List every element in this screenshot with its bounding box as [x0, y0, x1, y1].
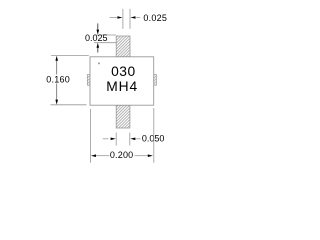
dim 0.160 left: dimension line — [56, 60, 58, 75]
tab right — [154, 75, 157, 86]
pad P1 (top, hatched) — [116, 36, 130, 57]
dim 0.025 top-left: extension line upper — [94, 34, 116, 36]
tab left — [87, 75, 90, 86]
dim 0.025 top-right: right leader arrow — [136, 17, 140, 19]
dim 0.025 top-left: arrow up — [97, 47, 99, 53]
svg-text:0.050: 0.050 — [142, 134, 165, 144]
dim 0.050 bottom: right arrow leader — [136, 138, 140, 140]
pad P2 (bottom, hatched) — [116, 105, 130, 128]
svg-text:0.025: 0.025 — [85, 33, 108, 43]
dim 0.050 bottom: extension lines — [115, 133, 117, 146]
dim 0.025 top-left: arrow down — [97, 23, 99, 30]
dim 0.050 bottom: left arrow — [103, 138, 109, 140]
dim 0.200 bottom: right arrow — [135, 155, 149, 157]
dim 0.160 left: value — [46, 75, 71, 83]
dim 0.160 left: extension line bottom — [51, 104, 87, 106]
dim 0.160 left: extension line top — [51, 55, 89, 57]
svg-text:MH4: MH4 — [106, 79, 138, 94]
dim 0.025 top-left: extension line lower — [94, 42, 116, 44]
dim 0.200 bottom: left arrow — [91, 154, 96, 157]
dim 0.025 top-right: extension lines — [122, 9, 124, 29]
dim 0.200 bottom: extension lines — [90, 109, 92, 163]
svg-text:030: 030 — [111, 64, 136, 79]
svg-text:0.200: 0.200 — [110, 150, 134, 160]
svg-text:0.160: 0.160 — [46, 75, 70, 85]
body outline — [90, 57, 154, 105]
svg-text:0.025: 0.025 — [143, 13, 167, 23]
dim 0.025 top-right: left leader arrow — [110, 17, 117, 19]
pin-1 dot — [98, 62, 100, 64]
